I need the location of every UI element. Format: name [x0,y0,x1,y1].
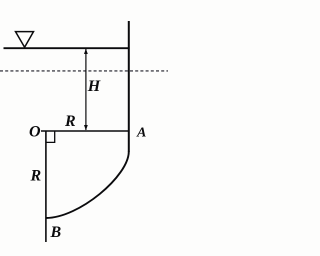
dashed reference line [0,70,168,72]
water surface line [4,47,130,49]
svg-text:R: R [30,168,42,185]
svg-text:A: A [136,126,146,141]
H dimension line with arrowheads [84,49,88,131]
svg-text:B: B [50,224,62,241]
right-angle mark at O [46,132,55,143]
svg-text:H: H [87,78,101,95]
svg-text:R: R [64,113,76,130]
svg-text:O: O [29,124,41,141]
horizontal line O to A [41,130,129,132]
vertical line O to B [45,131,47,243]
wall (vertical line, point A region) [128,21,130,152]
arc A to B (curved gate surface) [46,152,129,219]
water surface symbol (nabla triangle) [16,32,34,48]
